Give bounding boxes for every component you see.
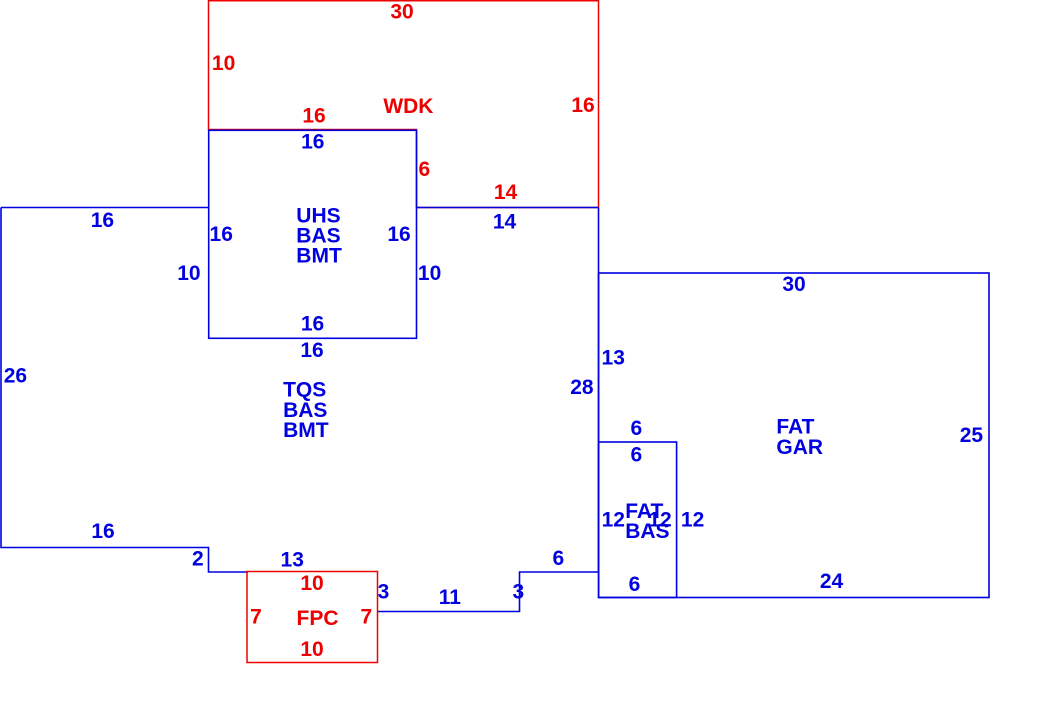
svg-text:11: 11: [439, 586, 462, 609]
svg-text:12: 12: [681, 509, 704, 532]
svg-text:26: 26: [4, 365, 27, 388]
svg-text:7: 7: [360, 605, 372, 628]
svg-text:16: 16: [301, 130, 324, 153]
svg-text:6: 6: [419, 158, 431, 181]
svg-text:16: 16: [210, 223, 233, 246]
svg-text:BMT: BMT: [296, 244, 342, 267]
FAT GAR area outline (blue rect): [599, 273, 989, 598]
svg-text:6: 6: [629, 573, 641, 596]
svg-text:7: 7: [250, 605, 262, 628]
svg-text:10: 10: [300, 638, 323, 661]
svg-text:2: 2: [192, 548, 204, 571]
svg-text:6: 6: [552, 547, 564, 570]
svg-text:WDK: WDK: [383, 95, 433, 118]
UHS BAS BMT area outline (blue rect): [209, 130, 417, 338]
svg-text:16: 16: [301, 313, 324, 336]
svg-text:16: 16: [91, 209, 114, 232]
svg-text:12: 12: [602, 509, 625, 532]
svg-text:3: 3: [378, 581, 390, 604]
WDK area outline (red polygon): [209, 1, 599, 208]
TQS BAS BMT area outline (blue path): [1, 208, 599, 612]
svg-text:30: 30: [782, 273, 805, 296]
svg-text:16: 16: [302, 104, 325, 127]
svg-text:30: 30: [390, 0, 413, 23]
svg-text:25: 25: [960, 424, 984, 447]
svg-text:16: 16: [387, 223, 410, 246]
svg-text:10: 10: [177, 262, 200, 285]
svg-text:10: 10: [300, 572, 323, 595]
svg-text:28: 28: [570, 376, 594, 399]
svg-text:16: 16: [571, 94, 594, 117]
svg-text:3: 3: [512, 581, 524, 604]
svg-text:16: 16: [300, 339, 323, 362]
svg-text:14: 14: [494, 181, 518, 204]
svg-text:BMT: BMT: [283, 419, 329, 442]
FAT BAS area outline (blue rect): [599, 442, 677, 598]
svg-text:13: 13: [602, 347, 625, 370]
svg-text:24: 24: [820, 570, 844, 593]
svg-text:10: 10: [212, 52, 235, 75]
svg-text:BAS: BAS: [625, 520, 669, 543]
svg-text:6: 6: [630, 417, 642, 440]
svg-text:10: 10: [418, 262, 441, 285]
svg-text:FPC: FPC: [297, 607, 339, 630]
FPC area outline (red rect, drawn over blue): [247, 572, 378, 663]
svg-text:13: 13: [281, 549, 304, 572]
svg-text:6: 6: [630, 444, 642, 467]
svg-text:GAR: GAR: [776, 436, 823, 459]
svg-text:16: 16: [91, 520, 114, 543]
svg-text:14: 14: [493, 211, 517, 234]
